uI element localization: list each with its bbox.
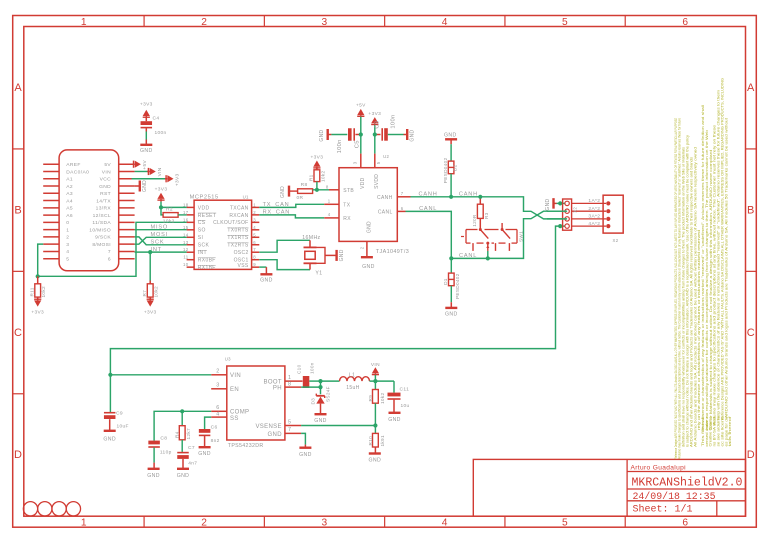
svg-text:5V: 5V <box>104 162 111 168</box>
wire X2 pin3 <box>547 218 567 220</box>
svg-text:5: 5 <box>562 17 568 28</box>
svg-text:Arturo Guadalupi: Arturo Guadalupi <box>631 464 687 471</box>
svg-text:4: 4 <box>328 212 331 217</box>
svg-text:11: 11 <box>183 255 188 260</box>
svg-text:CANL: CANL <box>459 253 477 259</box>
svg-text:GND: GND <box>280 186 286 198</box>
+3V3 supply below R7 <box>144 298 157 316</box>
svg-text:D: D <box>14 449 22 461</box>
net RX_CAN wire <box>259 209 324 218</box>
svg-text:TX0RTS: TX0RTS <box>227 228 248 234</box>
capacitor C10 100n <box>296 362 320 388</box>
svg-text:VIN: VIN <box>157 167 163 176</box>
+3V3 supply at connector <box>165 174 181 187</box>
svg-text:C6: C6 <box>211 425 218 431</box>
svg-text:2: 2 <box>216 369 219 375</box>
svg-text:3: 3 <box>253 217 256 222</box>
row labels A-D <box>14 82 755 461</box>
ground below D1 <box>445 302 458 317</box>
wire COMP net <box>154 411 211 440</box>
svg-text:5: 5 <box>376 161 381 164</box>
junction CANH-R3 <box>478 195 482 199</box>
svg-text:MOSI: MOSI <box>151 232 169 238</box>
svg-text:3A*2: 3A*2 <box>588 214 600 220</box>
svg-text:7: 7 <box>253 247 256 252</box>
capacitor C6 8n2 <box>199 425 220 447</box>
resistor R2 10k2 <box>163 207 187 225</box>
svg-text:GND: GND <box>268 432 283 438</box>
svg-text:9: 9 <box>253 262 256 267</box>
svg-text:110p: 110p <box>160 449 172 455</box>
ground below C8 <box>147 469 160 479</box>
svg-text:BOOT: BOOT <box>263 379 281 385</box>
+3V3 supply above C3 <box>368 111 381 135</box>
svg-text:120R: 120R <box>472 214 477 227</box>
svg-text:3: 3 <box>66 242 69 248</box>
svg-text:R4: R4 <box>174 431 179 438</box>
svg-text:7: 7 <box>401 191 404 196</box>
ground at crystal <box>337 249 346 261</box>
svg-text:10u: 10u <box>401 403 410 409</box>
svg-text:GND: GND <box>410 130 416 142</box>
inductor L1 15uH <box>321 373 370 391</box>
svg-text:+3V3: +3V3 <box>140 102 153 108</box>
svg-text:GND: GND <box>367 221 373 233</box>
junction CANH-D2 <box>449 195 453 199</box>
svg-text:VDD: VDD <box>360 177 366 189</box>
connector J1 MKR header <box>43 150 134 271</box>
svg-text:12k7: 12k7 <box>186 428 191 439</box>
ground above D2 <box>444 133 457 145</box>
svg-text:RX: RX <box>343 216 351 222</box>
junction CANL-D1 <box>449 256 453 260</box>
svg-text:C3: C3 <box>374 121 380 129</box>
title block sheet <box>633 504 693 516</box>
svg-text:GND: GND <box>140 148 153 154</box>
svg-text:R9: R9 <box>368 395 373 402</box>
svg-text:4: 4 <box>66 249 69 255</box>
svg-text:11/SDA: 11/SDA <box>92 220 111 226</box>
svg-text:TX2RTS: TX2RTS <box>227 243 248 249</box>
title block date <box>633 491 716 503</box>
svg-text:GND: GND <box>142 180 148 192</box>
svg-text:Sheet: 1/1: Sheet: 1/1 <box>633 504 693 516</box>
svg-text:5: 5 <box>66 257 69 263</box>
junction CANL-SW1 <box>486 256 490 260</box>
wire SW1 to CANL <box>487 251 489 259</box>
svg-text:8: 8 <box>253 255 256 260</box>
net CANH wire <box>411 191 563 219</box>
svg-text:0: 0 <box>66 220 69 226</box>
svg-text:SCK: SCK <box>198 243 210 249</box>
svg-text:SW1: SW1 <box>518 231 523 242</box>
svg-text:CANL: CANL <box>378 210 393 216</box>
svg-text:GND: GND <box>369 458 382 464</box>
svg-text:SO: SO <box>198 228 206 234</box>
svg-text:6: 6 <box>682 517 688 528</box>
wire VDD pin U2 <box>360 135 362 154</box>
title block document name <box>632 477 743 490</box>
svg-text:MKRCANShieldV2.0: MKRCANShieldV2.0 <box>632 477 743 490</box>
svg-text:+5V: +5V <box>142 160 148 170</box>
svg-text:U3: U3 <box>225 356 231 361</box>
svg-text:GND: GND <box>362 264 375 270</box>
svg-text:1A*2: 1A*2 <box>588 198 600 204</box>
svg-text:+3V3: +3V3 <box>144 310 157 316</box>
svg-text:SS: SS <box>230 416 239 422</box>
ground below D3 <box>314 414 327 424</box>
title block author <box>631 464 687 471</box>
svg-text:4: 4 <box>442 17 448 28</box>
svg-text:4: 4 <box>442 517 448 528</box>
svg-text:13/RX: 13/RX <box>96 206 112 212</box>
capacitor C3 100n <box>374 114 403 140</box>
svg-text:GND: GND <box>147 473 160 479</box>
resistor R7 10k2 <box>142 252 159 300</box>
svg-text:U2: U2 <box>383 154 389 159</box>
svg-text:GND: GND <box>388 417 401 423</box>
svg-text:10k2: 10k2 <box>163 218 175 224</box>
svg-text:SI: SI <box>198 235 203 241</box>
svg-text:GND: GND <box>198 451 211 457</box>
junction R1-R8-STB <box>315 188 319 192</box>
+3V3 supply above R2 <box>155 186 168 201</box>
wire L1 to VIN node <box>370 380 395 382</box>
svg-text:+3V3: +3V3 <box>31 310 44 316</box>
IC U2 TJA1049T/3 <box>324 154 410 257</box>
connector X2 body <box>603 195 623 243</box>
wire VSENSE net <box>301 425 375 427</box>
resistor R1 10k2 <box>309 170 326 190</box>
svg-text:D3: D3 <box>311 398 316 405</box>
svg-text:B: B <box>14 204 22 216</box>
svg-text:100n: 100n <box>390 114 396 128</box>
svg-text:C7: C7 <box>188 445 195 451</box>
svg-text:10: 10 <box>183 262 189 267</box>
resistor R4 12k7 <box>174 411 191 452</box>
switch SW1 <box>461 223 523 251</box>
svg-text:X2: X2 <box>613 238 619 243</box>
ground at connector <box>135 180 148 192</box>
ground below C4 <box>140 140 153 155</box>
svg-text:3: 3 <box>352 161 357 164</box>
svg-text:SVDD: SVDD <box>374 174 380 189</box>
svg-text:PH: PH <box>273 386 282 392</box>
svg-text:Y1: Y1 <box>315 271 322 277</box>
ground below U2 <box>361 257 375 270</box>
svg-text:C5: C5 <box>354 140 360 148</box>
svg-text:5: 5 <box>288 419 291 425</box>
svg-text:+3V3: +3V3 <box>311 154 324 160</box>
svg-text:GND: GND <box>99 184 111 190</box>
+3V3 supply above R1 <box>311 154 324 170</box>
svg-text:SS24F: SS24F <box>326 386 331 402</box>
svg-text:6: 6 <box>216 405 219 411</box>
svg-text:C9: C9 <box>116 411 123 417</box>
svg-text:2: 2 <box>201 517 207 528</box>
svg-text:C: C <box>14 327 22 339</box>
svg-text:CANH: CANH <box>459 191 478 197</box>
svg-text:R7: R7 <box>142 290 147 297</box>
svg-text:B: B <box>747 204 755 216</box>
diode D1 PESD0402 <box>443 258 460 302</box>
svg-text:1: 1 <box>81 17 87 28</box>
svg-text:VSENSE: VSENSE <box>255 424 281 430</box>
svg-text:DAC0/A0: DAC0/A0 <box>66 169 89 175</box>
svg-text:A: A <box>747 82 755 94</box>
wire SS net <box>205 417 212 429</box>
ground below C9 <box>103 431 116 443</box>
svg-text:9/SCK: 9/SCK <box>95 235 111 241</box>
svg-text:A2: A2 <box>66 184 73 190</box>
VIN supply above node <box>371 362 380 381</box>
svg-text:RX_CAN: RX_CAN <box>263 209 291 215</box>
svg-text:GND: GND <box>545 199 551 211</box>
ground below C11 <box>388 413 401 423</box>
svg-text:4: 4 <box>216 411 219 417</box>
junction CS-R11 <box>36 274 40 278</box>
svg-text:GND: GND <box>177 473 190 479</box>
svg-text:VDD: VDD <box>198 205 210 211</box>
svg-text:INT: INT <box>198 250 207 256</box>
svg-text:GND: GND <box>444 133 457 139</box>
+3V3 supply below R11 <box>31 298 44 316</box>
capacitor C9 10uF <box>104 375 129 431</box>
junction VIN node <box>373 379 377 383</box>
svg-text:GND: GND <box>260 278 273 284</box>
svg-text:5: 5 <box>562 517 568 528</box>
svg-text:15uH: 15uH <box>346 385 359 391</box>
svg-text:U1: U1 <box>243 194 249 199</box>
svg-text:RX0BF: RX0BF <box>198 258 216 264</box>
svg-text:SCK: SCK <box>151 240 165 246</box>
ground left of R8 <box>280 186 289 198</box>
wire U3 GND pin <box>301 433 305 444</box>
+5V supply above C5 <box>356 103 366 135</box>
svg-text:10k2: 10k2 <box>380 393 385 404</box>
capacitor C7 4n7 <box>177 445 197 468</box>
svg-text:COMP: COMP <box>230 410 249 416</box>
svg-text:X2: X2 <box>572 207 577 213</box>
ground left of C5 <box>319 129 332 142</box>
svg-text:PESD0402: PESD0402 <box>443 158 448 184</box>
junction +5V-C5-VDD <box>359 132 363 136</box>
svg-text:10k2: 10k2 <box>41 286 46 297</box>
ground below VSS <box>260 267 273 284</box>
svg-text:TPS54232DR: TPS54232DR <box>228 443 264 449</box>
net MOSI wire <box>135 232 187 244</box>
column labels 1-6 <box>81 17 688 528</box>
svg-text:8: 8 <box>288 381 291 387</box>
svg-text:CANH: CANH <box>377 195 393 201</box>
svg-text:+5V: +5V <box>356 103 366 109</box>
svg-text:VIN: VIN <box>230 373 241 379</box>
svg-text:PESD0402: PESD0402 <box>455 273 460 299</box>
wire +3V3 from VCC <box>132 178 166 180</box>
svg-text:2: 2 <box>359 246 364 249</box>
svg-text:C8: C8 <box>160 435 167 441</box>
svg-text:1: 1 <box>81 517 87 528</box>
svg-text:10k2: 10k2 <box>154 286 159 297</box>
net TX_CAN wire <box>259 202 324 208</box>
svg-text:C10: C10 <box>296 364 301 374</box>
svg-text:2: 2 <box>253 210 256 215</box>
svg-text:CANH: CANH <box>419 191 438 197</box>
svg-text:TXCAN: TXCAN <box>230 205 249 211</box>
net OSC1 wire <box>259 260 310 270</box>
svg-text:AREF: AREF <box>66 162 80 168</box>
svg-text:CLKOUT/SOF: CLKOUT/SOF <box>213 220 248 226</box>
svg-text:4: 4 <box>253 225 256 230</box>
capacitor C8 110p <box>148 435 171 468</box>
svg-text:1: 1 <box>288 375 291 381</box>
registration circles <box>23 502 80 516</box>
wire STB <box>313 189 339 191</box>
net SCK wire <box>135 237 187 246</box>
svg-text:D2: D2 <box>453 164 458 171</box>
junction COMP-R4 <box>180 409 184 413</box>
svg-text:A1: A1 <box>66 177 73 183</box>
net CS wire <box>38 222 187 276</box>
resistor R9 10k2 <box>368 381 385 425</box>
wire +3V3 to VDD and R2 <box>161 202 187 215</box>
junction +3V3-C3-SVDD <box>373 132 377 136</box>
crystal Y1 16MHz <box>302 235 336 276</box>
+3V3 supply above C4 <box>140 102 153 122</box>
svg-text:6: 6 <box>253 240 256 245</box>
svg-text:C: C <box>747 327 755 339</box>
svg-text:VCC: VCC <box>100 177 111 183</box>
pin header X2 <box>563 198 611 230</box>
svg-text:A6: A6 <box>66 213 73 219</box>
svg-text:100n: 100n <box>310 362 315 374</box>
wire VSS to ground <box>259 266 266 268</box>
svg-text:8n2: 8n2 <box>211 438 220 444</box>
svg-text:1: 1 <box>66 227 69 233</box>
svg-text:8: 8 <box>326 184 329 189</box>
svg-text:GND: GND <box>314 418 327 424</box>
svg-text:MISO: MISO <box>151 225 169 231</box>
svg-text:2A*2: 2A*2 <box>588 206 600 212</box>
svg-text:OSC2: OSC2 <box>234 250 249 256</box>
svg-text:RESET: RESET <box>198 213 216 219</box>
net VIN rail wire <box>110 224 567 375</box>
svg-text:14/TX: 14/TX <box>96 198 111 204</box>
svg-text:14: 14 <box>183 232 189 237</box>
svg-text:MCP2515: MCP2515 <box>190 194 219 200</box>
svg-text:R8: R8 <box>301 182 308 188</box>
svg-text:12/SCL: 12/SCL <box>93 213 111 219</box>
resistor R8 0R <box>289 182 313 201</box>
svg-text:L1: L1 <box>349 373 355 379</box>
junction +3V3-VDD <box>159 205 163 209</box>
license disclaimer text <box>674 78 732 459</box>
svg-text:EN: EN <box>230 387 239 393</box>
junction PH <box>318 385 322 389</box>
svg-text:7: 7 <box>288 427 291 433</box>
ground below C6 <box>198 447 211 457</box>
svg-text:13: 13 <box>183 240 189 245</box>
svg-text:VIN: VIN <box>371 362 380 368</box>
svg-text:TX1RTS: TX1RTS <box>227 235 248 241</box>
svg-text:0R: 0R <box>297 195 304 201</box>
VIN supply at connector <box>147 167 163 176</box>
svg-text:A3: A3 <box>66 191 73 197</box>
svg-text:D: D <box>747 449 755 461</box>
net CANL wire <box>406 206 563 259</box>
svg-text:GND: GND <box>103 436 116 442</box>
svg-text:D1: D1 <box>443 278 448 285</box>
wire GND to X2 pin1 <box>557 201 568 205</box>
diode D2 PESD0402 <box>443 144 458 197</box>
ground at X2 <box>545 198 557 210</box>
svg-text:1: 1 <box>328 199 331 204</box>
net MISO wire <box>135 225 187 231</box>
svg-text:RXCAN: RXCAN <box>229 213 248 219</box>
net INT wire <box>135 247 187 253</box>
svg-text:24/09/18 12:35: 24/09/18 12:35 <box>633 491 716 503</box>
diode D3 SS24F <box>311 386 331 414</box>
svg-text:A: A <box>14 82 22 94</box>
svg-text:17: 17 <box>183 210 189 215</box>
svg-text:4A*2: 4A*2 <box>588 221 600 227</box>
svg-text:5: 5 <box>253 232 256 237</box>
svg-text:STB: STB <box>343 188 354 194</box>
wire X2 pin2 <box>547 210 567 212</box>
svg-text:GND: GND <box>299 452 312 458</box>
svg-text:6: 6 <box>682 17 688 28</box>
IC U1 MCP2515 <box>183 194 259 271</box>
svg-text:2: 2 <box>201 17 207 28</box>
svg-text:2: 2 <box>66 235 69 241</box>
junction BOOT-C10 <box>318 379 322 383</box>
resistor R10 1k91 <box>368 426 385 454</box>
wire VIN <box>135 170 149 172</box>
svg-text:GND: GND <box>445 311 458 317</box>
capacitor C11 10u <box>388 381 410 412</box>
svg-text:RX1BF: RX1BF <box>198 265 216 271</box>
ground below U3 <box>299 445 312 459</box>
IC U3 TPS54232DR <box>211 356 302 449</box>
svg-text:GND: GND <box>339 249 345 261</box>
svg-text:R1: R1 <box>309 174 314 181</box>
svg-text:3: 3 <box>216 383 219 389</box>
svg-text:100n: 100n <box>337 139 343 153</box>
svg-text:6: 6 <box>401 206 404 211</box>
svg-text:R2: R2 <box>166 207 173 213</box>
ground right of C3 <box>404 129 416 142</box>
svg-text:3: 3 <box>321 17 327 28</box>
svg-text:C4: C4 <box>153 116 160 122</box>
svg-text:A5: A5 <box>66 206 73 212</box>
capacitor C5 100n <box>331 128 360 153</box>
svg-text:RST: RST <box>100 191 111 197</box>
svg-text:16MHz: 16MHz <box>302 235 320 241</box>
svg-text:TX: TX <box>343 203 350 209</box>
svg-text:10k2: 10k2 <box>320 171 325 182</box>
title block <box>473 459 745 516</box>
wire SVDD pin U2 <box>374 135 376 154</box>
ground below C7 <box>177 469 190 479</box>
svg-text:+3V3: +3V3 <box>368 111 381 117</box>
svg-text:R3: R3 <box>484 212 489 219</box>
svg-text:GND: GND <box>319 130 325 142</box>
svg-text:+3V3: +3V3 <box>155 186 168 192</box>
svg-text:CS: CS <box>198 220 206 226</box>
wire VIN to U3 <box>108 373 211 377</box>
svg-text:TX_CAN: TX_CAN <box>263 202 290 208</box>
junction VSENSE-R9-R10 <box>373 423 377 427</box>
